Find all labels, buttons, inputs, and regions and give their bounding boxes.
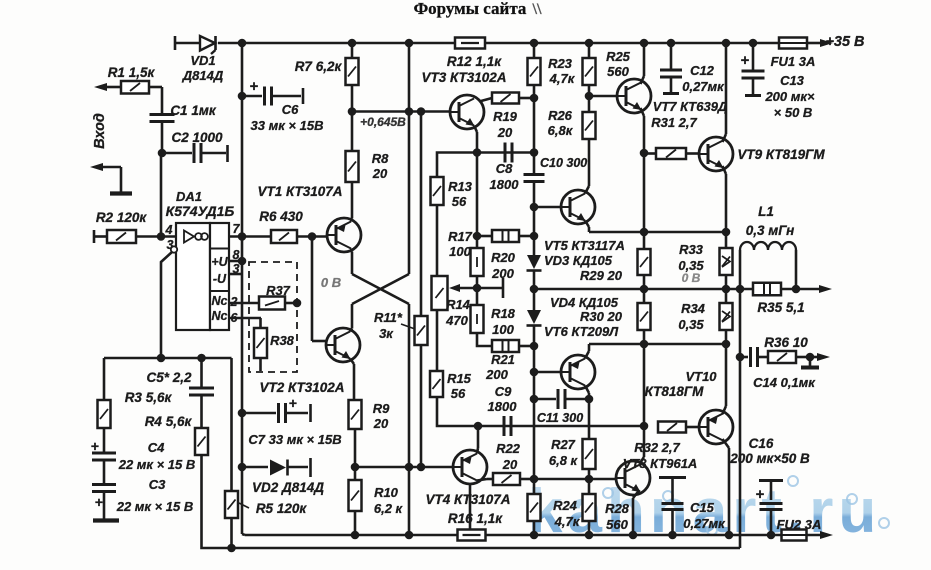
svg-text:R30 20: R30 20 [580,309,623,324]
svg-text:R28: R28 [605,501,630,516]
wire R34 to 344 node [725,330,728,344]
wire column to C7 [241,413,244,467]
svg-text:С10 300: С10 300 [540,156,587,170]
svg-text:22 мк × 15 В: 22 мк × 15 В [116,499,194,514]
wiper arrow R14 [449,278,503,298]
svg-text:56: 56 [451,386,466,401]
junction VD2 node [238,463,247,472]
resistor R15 [430,371,472,401]
svg-text:22 мк × 15 В: 22 мк × 15 В [118,457,196,472]
resistor R7 [295,58,359,85]
capacitor C5 [189,358,214,428]
resistor R32 [623,422,699,472]
svg-text:VD2 Д814Д: VD2 Д814Д [252,480,324,495]
svg-text:R24: R24 [553,498,578,513]
svg-text:20: 20 [372,166,388,181]
wire lower bus [202,455,741,548]
wire output to arrow [781,288,825,291]
resistor R36 [758,335,811,363]
wire pin7 [229,235,271,238]
label Вход [92,113,108,149]
transistor VT1 [257,184,361,252]
svg-text:1800: 1800 [488,399,518,414]
wire VT4 collector right [477,479,493,481]
wire x644 down to R32 [643,344,646,426]
svg-text:VT7 КТ639Д: VT7 КТ639Д [653,99,728,114]
resistor R6 [259,209,327,243]
junction R37 right [293,299,302,308]
svg-text:С3: С3 [149,477,166,492]
wire cross X [352,274,409,304]
resistor R10 [349,467,404,535]
junction x644 R31 [640,149,649,158]
wire R18 to R21 wire [477,333,492,346]
capacitor C16 [729,436,810,535]
resistor R12 [421,38,506,86]
junction C5 net pin3 [157,354,166,363]
junction base wire x409 [405,107,414,116]
svg-text:С6: С6 [282,102,299,117]
wire pin2 [229,302,259,305]
junction x534 R22 [530,475,539,484]
svg-text:VT10: VT10 [685,369,717,384]
wire pin6 [229,317,261,320]
svg-text:200 мк×: 200 мк× [764,89,815,104]
junction VT1 base node [308,232,317,241]
svg-text:R25: R25 [606,49,631,64]
wire pin8 [229,260,242,263]
svg-text:С14 0,1мк: С14 0,1мк [753,375,816,390]
wire C1 stem top [161,87,164,114]
svg-text:VT4 КТ3107А: VT4 КТ3107А [425,492,510,507]
svg-text:R9: R9 [373,401,390,416]
resistor R38 [254,318,295,371]
svg-text:R23: R23 [548,56,573,71]
wire VT7 base [589,95,617,98]
wire upper bus right [486,534,782,537]
wire C6 column down [241,96,244,413]
junction C2 node [158,149,167,158]
wire C5 net [104,358,232,491]
transistor VT9 [699,137,825,171]
wire x477 to R17 node [476,153,479,237]
resistor R13 [431,177,473,209]
svg-text:R35 5,1: R35 5,1 [757,300,804,315]
wire R8 to node [351,112,354,152]
svg-text:FU1 3А: FU1 3А [771,54,816,69]
svg-text:R5 120к: R5 120к [256,501,308,516]
junction VT4 base net [351,463,360,472]
arrow output [819,285,832,293]
svg-text:R16 1,1к: R16 1,1к [448,511,503,526]
junction rail x242 [238,39,247,48]
junction R36 gnd [806,353,815,362]
resistor R17 [448,229,534,259]
junction C7 node [238,409,247,418]
capacitor C13 [741,43,815,120]
wire pin3 right [229,273,242,276]
svg-text:33 мк × 15В: 33 мк × 15В [251,118,324,133]
resistor R22 [493,441,534,485]
svg-text:С4: С4 [148,440,165,455]
wire VT2 collector up [350,304,352,332]
svg-text:VD3 КД105: VD3 КД105 [544,253,613,268]
wire R26 to VT5 collector [585,139,589,194]
svg-text:VT6 КТ209Л: VT6 КТ209Л [544,324,619,339]
transistor VT4 [425,450,510,507]
svg-text:R18: R18 [491,306,516,321]
resistor R4 [145,414,208,455]
wire VT7 collector [641,43,645,84]
svg-text:FU2 3А: FU2 3А [777,517,822,532]
svg-text:0,35: 0,35 [678,317,704,332]
junction x589 C11 [585,395,594,404]
svg-text:× 50 В: × 50 В [774,105,813,120]
wire VT1 collector up [351,182,352,222]
svg-text:VD1: VD1 [190,53,215,68]
junction wiper x477 [473,284,482,293]
resistor R30 [638,289,651,344]
op-amp DA1 К574УД1Б [165,189,241,330]
node C2 terminal [226,145,229,162]
svg-text:R33: R33 [679,242,704,257]
wire R33 to output [725,275,728,289]
arrow output2 [817,353,830,361]
junction R5 bus [227,544,236,553]
svg-text:L1: L1 [758,204,774,219]
junction x534 R21 [530,342,539,351]
resistor R25 [583,43,631,96]
wire C2 node down to R2 wire [160,153,163,237]
junction x644 232 [640,228,649,237]
junction x589 bus [585,531,594,540]
svg-text:С11 300: С11 300 [537,411,583,425]
capacitor C14 [740,347,816,390]
resistor R1 [94,65,155,94]
junction x534 output [530,285,539,294]
wire x644 down to 232 [643,153,646,232]
capacitor C15 [659,478,726,536]
junction base wire x421 [417,107,426,116]
junction x477 R17 [473,232,482,241]
svg-text:20: 20 [497,125,513,140]
dashed box R37 R38 [249,262,297,372]
svg-text:0,3 мГн: 0,3 мГн [746,223,795,238]
svg-text:4,7к: 4,7к [554,514,581,529]
svg-text:+U: +U [211,255,228,269]
wire output line [534,288,753,291]
wire x740 down [739,289,742,357]
svg-text:С9: С9 [495,384,512,399]
wire VT6 base [534,371,561,374]
svg-text:С15: С15 [690,500,715,515]
wire x726 to VT10 [723,344,727,414]
svg-text:R2 120к: R2 120к [96,210,148,225]
resistor R9 [349,400,391,431]
svg-text:R8: R8 [372,151,389,166]
wire x409 lower [408,304,411,467]
wire bus to arrow [807,534,826,537]
svg-text:200 мк×50 В: 200 мк×50 В [729,451,810,466]
wire top rail left [175,42,199,45]
svg-text:+0,645В: +0,645В [360,115,406,129]
junction x644 C9R32 wire [640,422,649,431]
junction VT5 base node [530,203,539,212]
wire VD3 to output [533,270,536,289]
svg-text:С7 33 мк × 15В: С7 33 мк × 15В [248,432,341,447]
svg-text:R10: R10 [374,485,399,500]
junction rail x753 [749,39,758,48]
input ground arrow [90,163,121,192]
svg-text:R13: R13 [448,179,473,194]
svg-text:+: + [250,78,259,95]
svg-text:Nс: Nс [212,294,228,308]
svg-text:VT5 КТ3117А: VT5 КТ3117А [544,238,625,253]
wire VT7 emitter [641,108,645,153]
wire R14 to R15 [436,310,439,371]
svg-text:VT2 КТ3102А: VT2 КТ3102А [259,380,344,395]
junction rail x589 [585,39,594,48]
junction pin8 node [238,257,247,266]
svg-text:6,8к: 6,8к [548,123,574,138]
svg-text:1800: 1800 [490,177,520,192]
label C5 [146,370,192,385]
svg-text:VT8 КТ961А: VT8 КТ961А [623,456,698,471]
diode VD1 [182,36,224,83]
potentiometer R14 [432,276,471,328]
junction R2 wire [157,232,166,241]
resistor R27 [549,399,596,479]
svg-text:0,27мк: 0,27мк [682,79,725,94]
svg-text:+: + [95,494,103,510]
capacitor C4 [91,438,195,484]
junction C9 wire VT4 [474,422,483,431]
wire x534 to VT6 base [533,346,536,372]
svg-text:R17: R17 [448,229,473,244]
fuse FU1 [771,38,816,70]
wire x740 to bottom [739,357,742,548]
diode VD2 [242,458,324,495]
junction rail x671 [667,39,676,48]
wire VT4 bottom [469,485,472,530]
svg-text:R38: R38 [270,333,295,348]
page title [414,0,542,18]
label +0,645В [360,115,406,129]
node +35V rail terminal [174,36,177,50]
svg-text:3к: 3к [379,326,394,341]
svg-text:С16: С16 [749,436,774,451]
capacitor C12 [660,43,725,94]
junction x726 output [722,285,731,294]
wire VT3 emitter [474,126,477,153]
junction C16 bus [767,531,776,540]
capacitor C2 [171,130,223,163]
svg-text:Nс: Nс [212,309,228,323]
svg-text:R14: R14 [446,297,471,312]
resistor R24 [528,479,581,535]
svg-text:Д814Д: Д814Д [182,68,224,83]
svg-text:0 В: 0 В [682,271,701,285]
svg-text:R32 2,7: R32 2,7 [634,440,680,455]
arrow +35V [820,39,833,47]
wire to arrow2 [810,356,823,359]
junction x644 344 [640,340,649,349]
svg-text:R15: R15 [447,371,472,386]
junction R10 bus [351,531,360,540]
junction VT10 bus [725,531,734,540]
resistor R16 [458,530,486,541]
wire VT8 emitter [633,490,640,535]
resistor R20 [471,236,516,281]
svg-text:R31 2,7: R31 2,7 [651,115,697,130]
svg-text:R7 6,2к: R7 6,2к [295,59,343,74]
svg-text:100: 100 [449,244,471,259]
svg-text:20: 20 [373,416,389,431]
wire x534 to VD3 [533,236,536,255]
wire VT3 base [352,110,450,113]
svg-text:КТ818ГМ: КТ818ГМ [645,384,705,399]
svg-text:+35 В: +35 В [825,34,864,50]
wire upper bus [245,534,458,537]
junction x534 C8 [530,148,539,157]
wire R29 to output [643,275,646,289]
svg-text:56: 56 [452,194,467,209]
svg-text:R1 1,5к: R1 1,5к [108,65,156,80]
wire VT9 emitter [722,166,731,248]
junction C15 bus [668,531,677,540]
wire pin3 down to C5 net [161,252,172,358]
svg-text:4,7к: 4,7к [549,71,576,86]
wire VT5 base [534,206,561,209]
svg-text:\\: \\ [532,1,542,18]
wire x534 to C8 net [533,98,536,153]
junction L1 right [792,285,801,294]
ground C3 [93,518,119,522]
wire VT1 emitter down [351,249,352,275]
svg-text:VT9 КТ819ГМ: VT9 КТ819ГМ [737,147,825,162]
resistor R19 [481,93,534,141]
wire rail to C6 node [241,43,244,96]
ground input [110,191,132,195]
transistor VT10 [645,369,733,444]
resistor R33 [678,242,732,285]
wire R13 to R14 [436,205,439,276]
junction C6 node [238,92,247,101]
junction x534 C11 [530,395,539,404]
wire top rail R12 to FU1 [485,42,779,45]
wire x644 to VT8 collector [640,426,645,464]
label +35 В [825,34,864,50]
junction x477 C8 net [473,148,482,157]
svg-text:R12 1,1к: R12 1,1к [447,54,502,69]
junction VT7 base node [585,92,594,101]
wire VT6 emitter to rail344 [585,344,726,359]
wire R3 to C4 [103,428,106,452]
wire x409 to bus [408,467,411,535]
diode VD3 [527,238,625,283]
wire top rail VD1 to R12 [218,42,455,45]
junction rail x644 [640,39,649,48]
diode VD4 [527,295,623,339]
junction x644 output [640,285,649,294]
junction rail x534 [530,39,539,48]
wire VT10 emitter [723,439,730,535]
wire R9 to base node [354,429,357,467]
watermark kahnart.ru [528,476,889,546]
svg-text:200: 200 [491,266,514,281]
transistor VT7 [617,79,728,130]
svg-text:R27: R27 [551,437,576,452]
capacitor C8 [490,143,520,193]
junction 0.645V node [348,107,357,116]
svg-text:+: + [741,52,750,69]
wire VT4 emitter up [477,426,478,454]
svg-text:R22: R22 [496,441,521,456]
wire column to bus [242,467,245,535]
junction C5 net C5 [197,354,206,363]
capacitor C9 [488,384,518,436]
wire rail to arrow [807,42,823,45]
resistor R34 [678,289,732,332]
label 0 В [321,275,341,290]
resistor R26 [548,96,596,139]
wire R7 stubs [351,43,354,112]
resistor R5 [225,491,307,548]
transistor VT8 [616,461,650,495]
junction x589 R22wire [585,475,594,484]
resistor R29 [638,232,651,275]
svg-text:R34: R34 [681,301,706,316]
svg-text:4: 4 [165,223,173,237]
svg-text:VT1 КТ3107А: VT1 КТ3107А [257,184,342,199]
resistor R3 [98,390,173,428]
svg-text:VT3 КТ3102А: VT3 КТ3102А [421,70,506,85]
svg-text:К574УД1Б: К574УД1Б [166,203,235,219]
wire VD4 to R21 node [533,325,536,346]
wire x409 upper [408,43,411,274]
wire C8 right [477,151,534,154]
svg-text:VD4 КД105: VD4 КД105 [550,295,619,310]
junction x740 C14 [736,353,745,362]
junction pin7 node [238,232,247,241]
wire x534 to C11 [533,372,536,399]
pin 3 inverting input circle [171,246,177,252]
svg-text:R36 10: R36 10 [764,335,808,350]
wire C8 net corner [437,153,477,178]
svg-text:6,8 к: 6,8 к [549,453,579,468]
fuse FU2 [777,517,822,541]
wire R15 to C9 wire [437,397,478,426]
svg-text:R29 20: R29 20 [580,268,623,283]
svg-text:560: 560 [607,64,629,79]
capacitor C7 [242,395,342,447]
wire R1 to C1 node [149,86,162,89]
wire C1 to C2 node [161,122,164,154]
resistor R28 [583,479,630,535]
junction x409 base wire VT4 [405,463,414,472]
inductor L1 [740,204,796,289]
arrow -35V [820,531,833,539]
svg-text:470: 470 [445,313,468,328]
junction x740 output [736,285,745,294]
svg-text:560: 560 [606,517,628,532]
svg-text:6,2 к: 6,2 к [374,501,404,516]
junction VT8 bus [629,531,638,540]
svg-text:R20: R20 [491,250,516,265]
wire x534 to R17 [533,207,536,236]
svg-text:0 В: 0 В [321,275,341,290]
svg-text:+: + [289,395,297,411]
